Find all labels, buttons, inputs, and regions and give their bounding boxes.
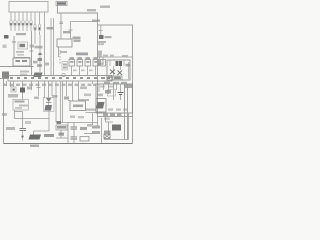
- wire: main feed from label to PCM box: [58, 6, 98, 26]
- wires: drops from connector strip: [7, 81, 98, 123]
- module box center (bottom): [70, 101, 86, 111]
- wires in lower cluster: [74, 113, 98, 144]
- wires: sensor box to ground run: [15, 110, 50, 128]
- sensor box text lines: [15, 101, 25, 103]
- ground G3 hatch (bottom): [29, 135, 42, 140]
- wire: second drop from feed to switch box: [69, 22, 98, 40]
- text right of second drop: [73, 37, 81, 40]
- capacitor symbol in sensor block: [118, 93, 124, 95]
- faint top-right text: [100, 6, 110, 8]
- texts above sensor block: [104, 82, 127, 84]
- fuse F1 box: [18, 42, 28, 49]
- relay dark body bottom-right: [112, 125, 121, 131]
- left fuse box text: [16, 60, 21, 62]
- component with X symbol: [104, 134, 110, 139]
- pin texts under PCM box: [103, 114, 122, 117]
- fuse labels and values: [70, 57, 99, 63]
- wire: battery feed down left side: [13, 36, 15, 58]
- small box in lower cluster: [80, 137, 89, 142]
- inner box pin stubs: [110, 60, 129, 79]
- text at left edge: [2, 113, 7, 116]
- injector resistor box (top-left component block): [9, 2, 48, 13]
- injector connector pin dots: [10, 23, 40, 30]
- small label box at strip right end: [113, 76, 122, 80]
- dashed shield line: [59, 50, 61, 64]
- sensor connector box under strip: [11, 87, 16, 92]
- text bottom-left: [6, 127, 15, 130]
- ignition switch box: [57, 39, 72, 47]
- inner box bottom texts: [108, 76, 113, 78]
- marks below lower label box: [59, 133, 65, 136]
- circle connector under relay box: [62, 73, 65, 76]
- wire drops from injector box: [11, 12, 40, 24]
- ground bus label text: [30, 145, 39, 147]
- pin number row under strip: [3, 84, 96, 86]
- text right of label block: [20, 71, 29, 73]
- capacitor C1 lead and junction dot: [22, 131, 24, 141]
- module box text: [73, 105, 83, 108]
- text right of fuse F1: [30, 45, 35, 48]
- injector group label text: [16, 33, 26, 35]
- sensor label text: [105, 36, 112, 38]
- wires: to relay bottom-right: [106, 117, 114, 136]
- wire from dark sensor down: [22, 93, 24, 100]
- top middle label box (HOT AT ALL TIMES): [56, 2, 67, 6]
- coil primary mark: [39, 53, 42, 55]
- inline connector tick on left wire: [12, 41, 16, 43]
- wire: distributor to ground G3: [34, 111, 50, 135]
- lower center label box: [56, 125, 67, 130]
- bottom ground bus wire: [4, 143, 133, 145]
- sensor block box (right, below strip): [96, 84, 133, 113]
- divider line inside PCM + stubs: [98, 57, 133, 66]
- battery label text: [3, 45, 7, 49]
- text above feed line: [87, 9, 96, 11]
- injector connector symbols row: [10, 20, 41, 31]
- dashes below switch box: [58, 47, 60, 57]
- left fuse/junction box: [13, 58, 30, 66]
- PCM outer box (right): [98, 25, 133, 117]
- wires: fuse drops to connector strip: [72, 66, 96, 76]
- text below switch box: [60, 51, 67, 53]
- wire color texts above module: [80, 87, 87, 90]
- pigtail wires below connectors: [11, 27, 40, 44]
- ground G1 hatch (mid-left): [33, 73, 42, 78]
- relay label text: [104, 131, 111, 134]
- texts above divider: [98, 55, 128, 66]
- texts in sensor block: [105, 90, 111, 94]
- faint text lower-left: [25, 121, 31, 124]
- wires: lower center connections: [56, 118, 102, 144]
- capacitor lead down: [120, 95, 122, 100]
- relay box text lines: [63, 64, 67, 66]
- vertical text on PCM left edge: [98, 51, 102, 57]
- distributor box: [44, 98, 55, 112]
- ground G3 label text: [44, 134, 54, 137]
- text left of diode column: [34, 97, 39, 100]
- wire diode to distributor: [48, 102, 50, 105]
- label above module box: [78, 99, 89, 101]
- PCM connector strip (long horizontal): [8, 76, 112, 82]
- diode symbol above distributor: [46, 98, 51, 102]
- wire: ignition coil column: [38, 35, 42, 72]
- crossover symbol 1: [110, 70, 115, 75]
- wires: bottom-right return loop: [104, 113, 129, 140]
- text right of center wires: [64, 97, 69, 100]
- sensor box left (bottom-left block): [13, 100, 29, 111]
- driver stage inner box: [107, 60, 130, 80]
- label text under fuse F1: [16, 51, 24, 53]
- extra stub in sensor block: [116, 84, 118, 90]
- wire color code text: [47, 27, 54, 29]
- text right of inline connector: [63, 31, 71, 33]
- text label mid-left: [8, 94, 18, 98]
- ignition switch label text: [74, 40, 81, 42]
- wire color text at feed corner: [92, 20, 100, 22]
- component box in sensor block: [108, 90, 116, 97]
- wire: drop with inline connector to switch box: [60, 13, 64, 39]
- center fuse boxes row: [69, 60, 106, 67]
- small connector block end of center wires: [57, 121, 62, 124]
- wires: right side verticals: [125, 84, 133, 144]
- text right of sensors: [27, 87, 32, 90]
- dark label block far-left: [2, 72, 9, 79]
- text below coil: [37, 64, 42, 67]
- battery symbol: [4, 35, 9, 39]
- capacitor C2 (lower cluster): [71, 127, 78, 139]
- crossover symbol 2: [118, 71, 123, 76]
- text right of strip: [124, 85, 132, 89]
- wire color texts between fuse drops: [73, 70, 93, 72]
- small relay box center: [62, 62, 68, 71]
- dark sensor component under strip: [20, 88, 25, 93]
- wire: left edge feed and left vertical bus: [0, 79, 8, 144]
- wire stub in lower cluster: [84, 133, 92, 135]
- pin texts along sensor block bottom: [108, 109, 127, 111]
- ground G2 hatch in sensor block: [96, 102, 105, 109]
- coil column label text: [35, 46, 43, 49]
- wires at module box: [68, 101, 102, 113]
- fuse box label text: [76, 53, 88, 56]
- texts in lower cluster: [80, 127, 87, 130]
- small ground box inside sensor block: [96, 99, 106, 113]
- text left of coil: [33, 61, 38, 64]
- text right of wire x44: [45, 63, 49, 66]
- capacitor C1 bottom-left: [20, 129, 27, 131]
- text right of diode: [53, 95, 58, 98]
- sensor symbol inside PCM top: [99, 25, 103, 35]
- text right of module box: [86, 109, 96, 111]
- coil body mark: [38, 58, 42, 61]
- wires: left bus and feeds: [0, 31, 34, 76]
- connector strip pin texts: [10, 77, 110, 79]
- wires: center long verticals: [45, 12, 54, 76]
- transistor pair dark marks: [116, 61, 119, 66]
- fuse F1 value text: [20, 44, 26, 47]
- distributor dark body: [45, 105, 53, 111]
- sensor block interior pin stubs: [99, 84, 121, 100]
